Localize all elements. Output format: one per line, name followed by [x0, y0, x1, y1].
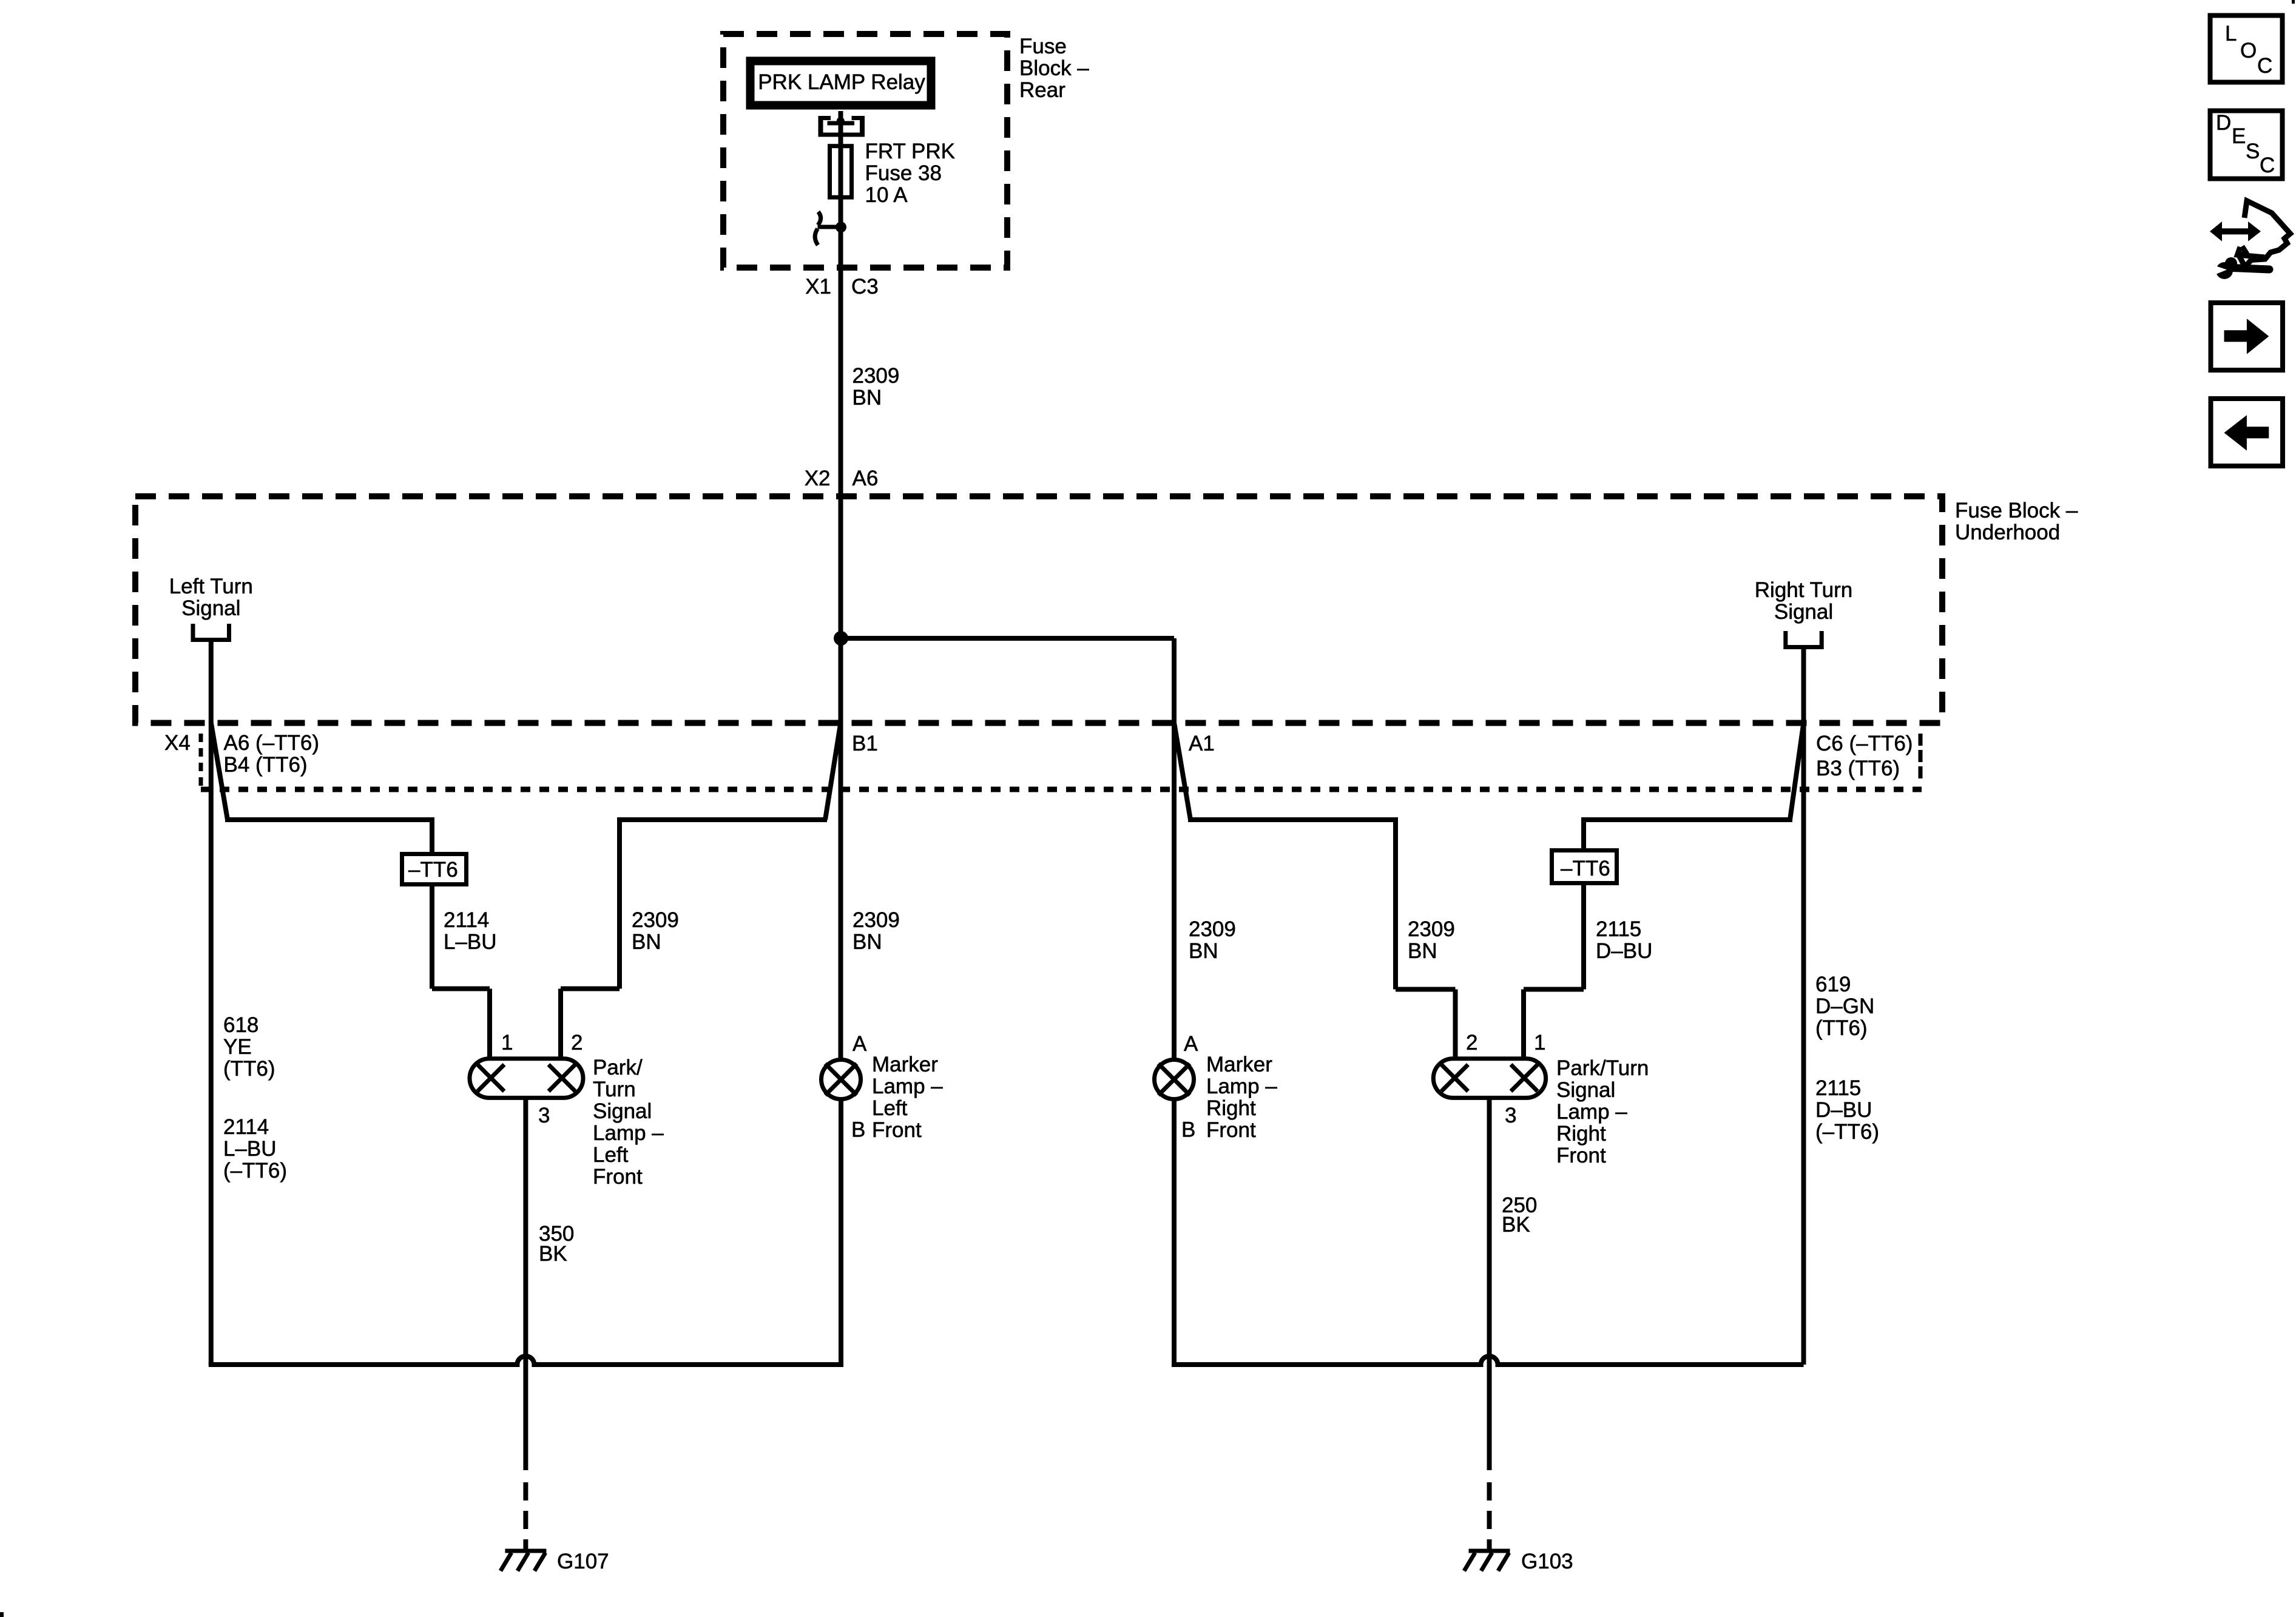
svg-text:(–TT6): (–TT6)	[223, 1159, 287, 1183]
svg-text:2: 2	[571, 1031, 582, 1055]
svg-text:L: L	[2225, 22, 2237, 46]
svg-text:D: D	[2216, 111, 2231, 135]
marker lamp - left front (symbol)	[822, 1060, 861, 1099]
svg-text:Left Turn: Left Turn	[169, 575, 253, 598]
svg-text:Fuse: Fuse	[1019, 35, 1067, 58]
wire jog (left pin 1)	[432, 987, 490, 991]
relay box: PRK LAMP Relay	[751, 61, 931, 106]
breaker hook symbol	[818, 212, 821, 225]
icon DESC (description button)	[2210, 111, 2283, 179]
ground G103	[1487, 1482, 1492, 1549]
svg-text:BN: BN	[632, 930, 661, 954]
connector strip dashed vertical (left)	[199, 734, 203, 789]
svg-text:Fuse 38: Fuse 38	[865, 161, 942, 185]
svg-text:(–TT6): (–TT6)	[1815, 1120, 1879, 1144]
svg-text:O: O	[2240, 39, 2257, 62]
svg-text:C: C	[2257, 54, 2272, 78]
svg-text:BN: BN	[1408, 939, 1437, 963]
svg-text:A1: A1	[1189, 732, 1215, 755]
svg-text:A6: A6	[853, 467, 879, 490]
wire drop to -TT6 box (left)	[430, 817, 434, 852]
svg-text:(TT6): (TT6)	[1815, 1016, 1868, 1040]
wire (A1 drop)	[1172, 638, 1177, 726]
wire jog (right pin 1)	[1524, 987, 1584, 992]
svg-text:2309: 2309	[853, 364, 900, 388]
wire horizontal to -TT6 (left)	[225, 817, 432, 822]
wire horizontal (B1 branch)	[620, 817, 827, 822]
ground G107	[523, 1482, 528, 1549]
wire horizontal (A1 branch)	[1188, 817, 1396, 822]
svg-text:S: S	[2246, 140, 2260, 163]
svg-text:D–BU: D–BU	[1815, 1098, 1872, 1122]
svg-text:B3 (TT6): B3 (TT6)	[1816, 757, 1900, 780]
wire (B1 to A1 horizontal)	[841, 636, 1174, 641]
wire 2115 D-BU (below -TT6 right)	[1581, 885, 1586, 990]
svg-text:G107: G107	[557, 1550, 609, 1573]
svg-text:3: 3	[1505, 1104, 1516, 1127]
svg-text:10 A: 10 A	[865, 183, 908, 207]
svg-text:Lamp –: Lamp –	[1206, 1075, 1277, 1098]
wire drop to -TT6 box (right)	[1581, 817, 1586, 848]
svg-text:Fuse Block –: Fuse Block –	[1955, 499, 2078, 522]
svg-text:Signal: Signal	[181, 596, 240, 620]
svg-text:BN: BN	[853, 386, 882, 410]
page corner mark (bottom left)	[0, 1612, 4, 1617]
wire 250 BK (right lamp ground)	[1487, 1098, 1492, 1470]
ground bus (right) with hop over 250 BK	[1174, 1356, 1804, 1365]
svg-text:Right: Right	[1206, 1096, 1256, 1120]
svg-text:2114: 2114	[444, 908, 489, 932]
svg-text:B: B	[851, 1118, 865, 1142]
ground bus (left) with hop over 350 BK	[211, 1356, 841, 1367]
svg-text:2309: 2309	[1408, 917, 1455, 941]
wire jog (right pin 2)	[1396, 987, 1456, 992]
svg-text:G103: G103	[1521, 1550, 1573, 1573]
svg-text:Underhood: Underhood	[1955, 521, 2060, 544]
svg-text:Rear: Rear	[1019, 78, 1065, 102]
svg-text:PRK LAMP Relay: PRK LAMP Relay	[758, 70, 925, 94]
svg-text:619: 619	[1815, 973, 1851, 996]
inline connector -TT6 (left)	[402, 854, 467, 885]
svg-text:2115: 2115	[1815, 1076, 1861, 1100]
svg-text:Lamp –: Lamp –	[1556, 1100, 1627, 1124]
svg-text:D–GN: D–GN	[1815, 994, 1874, 1018]
connector strip dashed horizontal	[201, 787, 1922, 792]
wire drop (right pin 2 upper)	[1393, 817, 1398, 990]
svg-text:Left: Left	[593, 1143, 629, 1167]
wire 350 BK (left lamp ground)	[523, 1098, 528, 1470]
svg-text:L–BU: L–BU	[223, 1137, 277, 1161]
svg-text:A: A	[853, 1032, 867, 1056]
page corner mark (top right)	[2292, 0, 2295, 4]
svg-text:L–BU: L–BU	[444, 930, 497, 954]
svg-text:C3: C3	[851, 275, 879, 299]
svg-text:Turn: Turn	[593, 1078, 636, 1101]
fuse block - rear (dashed enclosure)	[723, 34, 1007, 268]
svg-text:C6 (–TT6): C6 (–TT6)	[1816, 732, 1913, 755]
wire 619 D-GN (right turn signal vertical)	[1801, 647, 1806, 1365]
svg-text:C: C	[2260, 154, 2275, 177]
svg-text:Left: Left	[872, 1096, 908, 1120]
svg-text:BK: BK	[539, 1242, 567, 1266]
wire (right marker B to bus)	[1172, 1099, 1177, 1367]
wire 2309 BN (marker lamp right feed)	[1172, 726, 1177, 1061]
wire 2114 L-BU (below -TT6 left)	[430, 886, 434, 989]
fuse FRT PRK Fuse 38 10 A (symbol)	[830, 146, 852, 198]
inline connector -TT6 (right)	[1552, 851, 1617, 883]
svg-text:Lamp –: Lamp –	[872, 1075, 943, 1098]
svg-text:–TT6: –TT6	[1561, 857, 1610, 880]
svg-text:Marker: Marker	[1206, 1053, 1272, 1076]
wire slant (B1 branch)	[825, 723, 841, 820]
svg-text:E: E	[2232, 124, 2246, 148]
wire slant (left turn to -TT6 branch)	[211, 723, 228, 820]
svg-text:A6 (–TT6): A6 (–TT6)	[224, 731, 320, 755]
wire drop (left pin 2)	[617, 817, 622, 989]
svg-text:(TT6): (TT6)	[223, 1057, 275, 1081]
wire (left marker B to bus)	[839, 1099, 843, 1367]
marker lamp - right front (symbol)	[1155, 1060, 1194, 1099]
svg-text:1: 1	[1534, 1031, 1545, 1055]
svg-text:Marker: Marker	[872, 1053, 938, 1076]
svg-text:BN: BN	[1189, 939, 1218, 963]
svg-text:Right: Right	[1556, 1122, 1606, 1146]
relay contact symbol	[819, 116, 823, 137]
svg-text:Signal: Signal	[1774, 600, 1833, 624]
wire fuse output	[839, 199, 843, 227]
svg-text:B: B	[1181, 1118, 1195, 1142]
svg-text:X2: X2	[805, 467, 831, 490]
svg-text:2309: 2309	[853, 908, 900, 932]
wire 618 YE (left turn signal vertical)	[209, 640, 214, 1365]
left turn signal terminal	[193, 624, 229, 640]
wire 2309 BN (vertical, relay to underhood)	[839, 227, 843, 638]
svg-text:Right Turn: Right Turn	[1755, 578, 1852, 602]
svg-text:BK: BK	[1502, 1213, 1530, 1237]
svg-text:2114: 2114	[223, 1115, 269, 1139]
svg-text:Front: Front	[1206, 1118, 1256, 1142]
svg-text:1: 1	[501, 1031, 513, 1055]
wire slant (right turn to -TT6 branch)	[1790, 723, 1804, 820]
icon adjust (double arrow, outline, wrench)	[2210, 221, 2261, 241]
icon LOC (location button)	[2210, 16, 2283, 83]
wire jog (left pin 2)	[561, 987, 620, 991]
svg-text:Block –: Block –	[1019, 56, 1089, 80]
svg-text:–TT6: –TT6	[408, 858, 458, 882]
svg-text:2309: 2309	[632, 908, 679, 932]
junction dot (B1 node)	[834, 631, 848, 646]
svg-text:Park/Turn: Park/Turn	[1556, 1056, 1649, 1080]
svg-text:618: 618	[223, 1013, 258, 1037]
connector strip dashed vertical (right)	[1919, 734, 1923, 781]
svg-text:B4 (TT6): B4 (TT6)	[224, 753, 308, 777]
fuse block - underhood (dashed enclosure)	[135, 496, 1942, 723]
svg-text:X1: X1	[805, 275, 831, 299]
svg-text:2: 2	[1466, 1031, 1477, 1055]
junction dot (fuse output)	[836, 221, 846, 232]
svg-text:2309: 2309	[1189, 917, 1236, 941]
svg-text:Front: Front	[1556, 1144, 1606, 1167]
svg-text:3: 3	[538, 1104, 550, 1127]
svg-text:Signal: Signal	[1556, 1078, 1615, 1102]
svg-text:YE: YE	[223, 1035, 252, 1059]
right turn signal terminal	[1786, 631, 1822, 647]
icon back (left arrow button)	[2211, 399, 2283, 466]
park/turn signal lamp - right front (symbol)	[1433, 1059, 1545, 1098]
svg-text:A: A	[1184, 1032, 1198, 1056]
svg-text:Signal: Signal	[593, 1099, 652, 1123]
wire horizontal to -TT6 (right)	[1584, 817, 1792, 822]
svg-text:BN: BN	[853, 930, 882, 954]
svg-text:D–BU: D–BU	[1596, 939, 1652, 963]
wire 2309 BN (marker lamp left feed)	[839, 638, 843, 1061]
park/turn signal lamp - left front (symbol)	[470, 1059, 583, 1098]
wire slant (A1 branch)	[1174, 723, 1190, 820]
icon forward (right arrow button)	[2211, 303, 2283, 370]
svg-text:Front: Front	[593, 1165, 643, 1189]
svg-text:B1: B1	[852, 732, 878, 755]
svg-text:FRT PRK: FRT PRK	[865, 140, 955, 163]
svg-text:Front: Front	[872, 1118, 922, 1142]
svg-text:Lamp –: Lamp –	[593, 1121, 664, 1145]
svg-text:X4: X4	[164, 731, 191, 755]
svg-text:2115: 2115	[1596, 917, 1641, 941]
svg-text:Park/: Park/	[593, 1056, 643, 1079]
